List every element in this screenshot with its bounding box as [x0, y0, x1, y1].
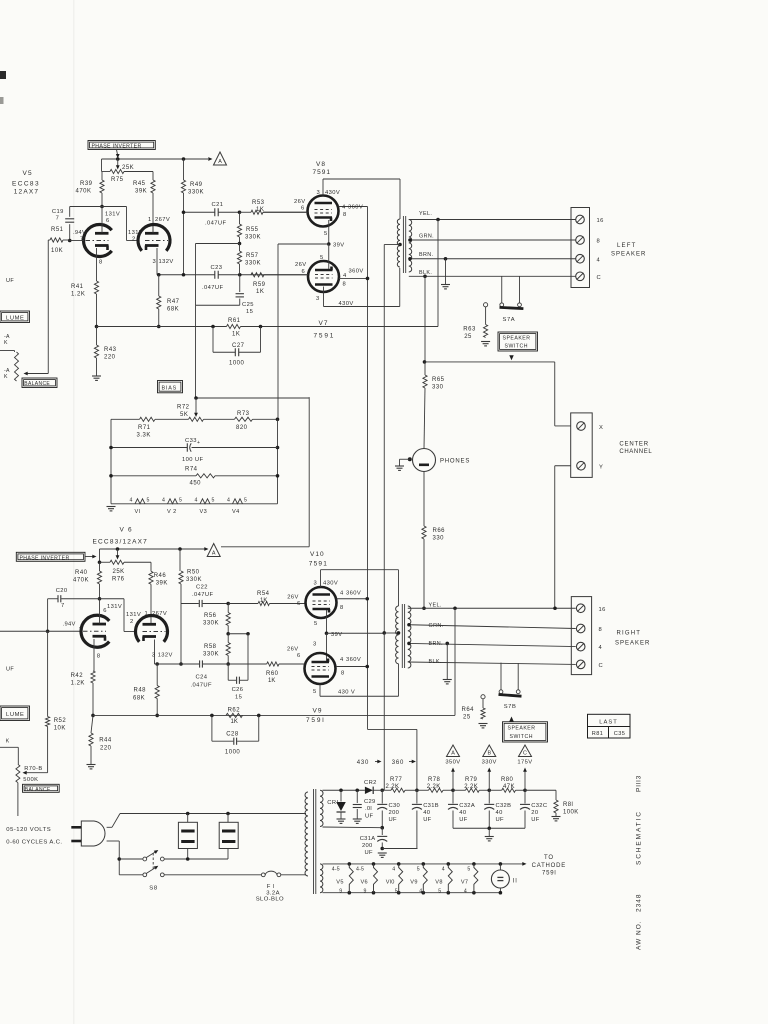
svg-text:25K: 25K — [122, 165, 134, 171]
svg-text:BALANCE: BALANCE — [24, 381, 50, 387]
svg-text:ECC83/12AX7: ECC83/12AX7 — [93, 539, 148, 546]
svg-text:R49: R49 — [190, 182, 203, 188]
svg-text:26V: 26V — [287, 595, 299, 601]
svg-text:4: 4 — [419, 888, 422, 894]
svg-text:330K: 330K — [203, 621, 219, 627]
svg-text:B: B — [487, 750, 491, 756]
svg-text:7: 7 — [56, 216, 59, 222]
svg-text:V9: V9 — [410, 879, 417, 885]
svg-text:C22: C22 — [196, 585, 208, 591]
svg-text:1K: 1K — [232, 332, 240, 338]
svg-text:4: 4 — [392, 866, 395, 872]
svg-text:5: 5 — [313, 689, 316, 695]
svg-text:R79: R79 — [465, 777, 477, 783]
svg-text:LUME: LUME — [6, 316, 25, 322]
svg-text:4: 4 — [442, 866, 445, 872]
svg-text:26V: 26V — [295, 262, 307, 268]
svg-text:UF: UF — [531, 817, 539, 823]
svg-text:8: 8 — [343, 282, 346, 288]
svg-text:25K: 25K — [113, 569, 125, 575]
svg-text:8: 8 — [599, 627, 603, 633]
svg-text:2: 2 — [132, 237, 135, 243]
svg-text:R65: R65 — [432, 377, 445, 383]
svg-text:267V: 267V — [155, 217, 170, 223]
svg-text:LEFT: LEFT — [617, 243, 636, 249]
svg-text:175V: 175V — [517, 760, 532, 766]
svg-text:5K: 5K — [180, 412, 188, 418]
svg-text:2: 2 — [130, 619, 133, 625]
svg-text:267V: 267V — [152, 611, 167, 617]
svg-text:68K: 68K — [133, 696, 145, 702]
svg-text:6: 6 — [297, 653, 300, 659]
svg-text:R77: R77 — [390, 777, 402, 783]
svg-text:132V: 132V — [158, 653, 173, 659]
svg-text:.047UF: .047UF — [191, 682, 212, 688]
svg-text:3: 3 — [317, 190, 320, 196]
svg-text:S7A: S7A — [503, 317, 516, 323]
svg-text:R52: R52 — [54, 718, 67, 724]
svg-text:V5: V5 — [336, 879, 343, 885]
svg-text:R64: R64 — [462, 707, 475, 713]
svg-text:C26: C26 — [232, 687, 244, 693]
svg-text:R59: R59 — [253, 282, 266, 288]
svg-text:1: 1 — [148, 217, 151, 223]
svg-text:759l: 759l — [306, 717, 326, 724]
svg-text:.94V: .94V — [73, 230, 86, 236]
svg-text:+: + — [197, 440, 200, 446]
svg-text:470K: 470K — [76, 189, 92, 195]
svg-text:R39: R39 — [80, 181, 93, 187]
svg-text:R73: R73 — [237, 411, 250, 417]
svg-text:05-120 VOLTS: 05-120 VOLTS — [6, 827, 51, 833]
svg-text:Il: Il — [513, 879, 518, 885]
svg-text:BLK.: BLK. — [419, 270, 432, 276]
svg-text:1000: 1000 — [225, 749, 241, 755]
svg-text:SWITCH: SWITCH — [510, 734, 533, 740]
svg-text:CENTER: CENTER — [619, 442, 648, 448]
svg-text:5: 5 — [417, 866, 420, 872]
svg-text:39K: 39K — [135, 189, 147, 195]
svg-text:R66: R66 — [433, 528, 446, 534]
svg-text:C32C: C32C — [531, 803, 547, 809]
svg-text:40: 40 — [459, 810, 466, 816]
svg-text:AW NO.: AW NO. — [636, 920, 643, 950]
svg-text:430V: 430V — [339, 301, 354, 307]
svg-text:C35: C35 — [614, 731, 625, 737]
svg-text:4: 4 — [599, 645, 603, 651]
svg-text:1K: 1K — [256, 289, 264, 295]
svg-text:LAST: LAST — [599, 720, 618, 726]
svg-text:450: 450 — [190, 481, 202, 487]
svg-text:RIGHT: RIGHT — [617, 631, 642, 637]
svg-text:330K: 330K — [186, 577, 202, 583]
svg-text:39V: 39V — [333, 243, 345, 249]
svg-text:68K: 68K — [167, 307, 179, 313]
svg-text:200: 200 — [389, 810, 400, 816]
svg-text:K: K — [4, 374, 8, 380]
svg-text:5: 5 — [320, 255, 323, 261]
svg-text:131V: 131V — [105, 212, 120, 218]
svg-text:6: 6 — [106, 218, 109, 224]
svg-text:3: 3 — [152, 653, 155, 659]
svg-text:R56: R56 — [204, 613, 217, 619]
svg-text:C25: C25 — [242, 302, 254, 308]
svg-text:SPEAKER: SPEAKER — [503, 336, 531, 342]
svg-text:3: 3 — [316, 296, 319, 302]
svg-text:C: C — [523, 750, 527, 756]
svg-text:BLK.: BLK. — [429, 659, 442, 665]
svg-text:330K: 330K — [188, 190, 204, 196]
svg-text:430V: 430V — [325, 190, 340, 196]
svg-text:330K: 330K — [245, 261, 261, 267]
svg-text:7591: 7591 — [309, 561, 328, 568]
svg-text:16: 16 — [597, 218, 604, 224]
svg-text:C30: C30 — [389, 803, 401, 809]
svg-text:15: 15 — [235, 695, 242, 701]
svg-text:5: 5 — [212, 498, 215, 504]
svg-text:8: 8 — [343, 212, 346, 218]
svg-text:UF: UF — [365, 850, 373, 856]
svg-text:4-5: 4-5 — [356, 866, 364, 872]
svg-text:500K: 500K — [23, 777, 38, 783]
svg-text:3: 3 — [153, 259, 156, 265]
svg-text:CR2: CR2 — [364, 780, 377, 786]
svg-text:200: 200 — [362, 843, 373, 849]
svg-text:1: 1 — [145, 611, 148, 617]
svg-text:1.2K: 1.2K — [71, 681, 85, 687]
svg-text:R51: R51 — [51, 227, 64, 233]
svg-text:6: 6 — [302, 269, 305, 275]
svg-text:R42: R42 — [71, 673, 84, 679]
svg-text:759l: 759l — [542, 870, 557, 876]
svg-text:R54: R54 — [257, 591, 270, 597]
svg-text:V3: V3 — [200, 509, 208, 515]
svg-text:5: 5 — [467, 866, 470, 872]
svg-text:C24: C24 — [196, 675, 208, 681]
svg-text:UF: UF — [496, 817, 504, 823]
svg-text:R61: R61 — [228, 318, 241, 324]
svg-text:R8l: R8l — [563, 802, 573, 808]
svg-text:X: X — [599, 425, 603, 431]
svg-text:3: 3 — [314, 581, 317, 587]
svg-text:TO: TO — [544, 855, 554, 861]
svg-text:R75: R75 — [111, 177, 124, 183]
svg-text:YEL.: YEL. — [429, 603, 442, 609]
svg-text:UF: UF — [6, 666, 14, 672]
svg-text:PHONES: PHONES — [440, 459, 470, 465]
svg-text:BRN.: BRN. — [419, 252, 433, 258]
svg-text:R81: R81 — [592, 731, 603, 737]
svg-text:430V: 430V — [323, 581, 338, 587]
svg-text:10K: 10K — [54, 726, 66, 732]
svg-text:4: 4 — [195, 498, 198, 504]
svg-text:7591: 7591 — [314, 333, 336, 340]
svg-text:C31A: C31A — [360, 836, 376, 842]
svg-text:.047UF: .047UF — [205, 221, 226, 227]
svg-text:2.2K: 2.2K — [427, 784, 441, 790]
svg-text:360V: 360V — [346, 591, 361, 597]
svg-text:V5: V5 — [23, 170, 33, 177]
svg-text:R80: R80 — [501, 777, 513, 783]
svg-text:UF: UF — [423, 817, 431, 823]
svg-text:330V: 330V — [482, 760, 497, 766]
svg-text:R60: R60 — [266, 671, 279, 677]
svg-text:R72: R72 — [177, 405, 190, 411]
svg-text:CHANNEL: CHANNEL — [619, 449, 652, 455]
svg-text:7: 7 — [79, 627, 82, 633]
svg-text:PHASE INVERTER: PHASE INVERTER — [92, 143, 142, 149]
svg-text:R57: R57 — [246, 253, 259, 259]
svg-text:2348: 2348 — [636, 894, 643, 912]
svg-text:2.2K: 2.2K — [464, 784, 478, 790]
svg-text:1K: 1K — [231, 719, 238, 725]
svg-text:R48: R48 — [134, 688, 147, 694]
svg-text:470K: 470K — [73, 578, 89, 584]
svg-text:360V: 360V — [348, 205, 363, 211]
svg-text:R40: R40 — [75, 570, 88, 576]
svg-text:R55: R55 — [246, 227, 259, 233]
svg-text:S8: S8 — [149, 885, 158, 891]
svg-text:C20: C20 — [56, 588, 68, 594]
svg-text:YEL.: YEL. — [419, 211, 432, 217]
svg-text:A: A — [218, 159, 222, 165]
svg-text:C28: C28 — [226, 732, 239, 738]
svg-text:4-5: 4-5 — [332, 866, 340, 872]
svg-text:A: A — [212, 550, 216, 556]
svg-text:R44: R44 — [99, 738, 112, 744]
svg-text:5: 5 — [314, 621, 317, 627]
svg-text:CRI: CRI — [327, 800, 338, 806]
svg-text:4: 4 — [597, 257, 601, 263]
svg-text:3.3K: 3.3K — [137, 433, 151, 439]
svg-text:R53: R53 — [252, 200, 265, 206]
svg-text:UF: UF — [6, 278, 14, 284]
svg-text:R43: R43 — [104, 347, 117, 353]
svg-text:330: 330 — [432, 385, 444, 391]
svg-text:47K: 47K — [503, 784, 515, 790]
svg-text:40: 40 — [496, 810, 503, 816]
svg-text:UF: UF — [365, 814, 373, 820]
svg-text:6: 6 — [301, 206, 304, 212]
svg-text:4: 4 — [464, 888, 467, 894]
svg-text:Plll3: Plll3 — [636, 775, 643, 792]
svg-text:V6: V6 — [361, 879, 368, 885]
svg-text:5: 5 — [324, 231, 327, 237]
svg-text:5: 5 — [179, 498, 182, 504]
svg-text:ECC83: ECC83 — [12, 181, 40, 188]
svg-text:8: 8 — [341, 671, 344, 677]
svg-text:100K: 100K — [563, 810, 579, 816]
svg-text:R50: R50 — [187, 570, 200, 576]
svg-text:.047UF: .047UF — [202, 285, 223, 291]
svg-text:BIAS: BIAS — [162, 385, 177, 391]
svg-text:330K: 330K — [203, 652, 219, 658]
svg-text:.047UF: .047UF — [192, 592, 213, 598]
svg-text:9: 9 — [364, 888, 367, 894]
svg-text:K: K — [4, 340, 8, 346]
svg-text:1K: 1K — [260, 598, 267, 604]
svg-text:SCHEMATIC: SCHEMATIC — [636, 810, 643, 865]
svg-text:12AX7: 12AX7 — [14, 189, 40, 196]
svg-text:R76: R76 — [112, 577, 125, 583]
svg-text:7: 7 — [80, 237, 83, 243]
svg-text:7: 7 — [61, 603, 64, 609]
svg-text:131V: 131V — [126, 612, 141, 618]
svg-text:1000: 1000 — [229, 361, 245, 367]
svg-text:V 2: V 2 — [167, 509, 177, 515]
svg-text:C21: C21 — [212, 202, 224, 208]
svg-text:8: 8 — [597, 239, 601, 245]
svg-text:9: 9 — [339, 888, 342, 894]
svg-text:V 6: V 6 — [120, 527, 133, 534]
svg-text:5: 5 — [244, 498, 247, 504]
svg-text:Vl0: Vl0 — [386, 879, 395, 885]
svg-text:R41: R41 — [71, 284, 84, 290]
svg-text:26V: 26V — [287, 647, 299, 653]
svg-text:R62: R62 — [228, 707, 241, 713]
svg-text:131V: 131V — [128, 230, 143, 236]
svg-text:V7: V7 — [461, 879, 468, 885]
svg-text:V4: V4 — [232, 509, 240, 515]
svg-text:CATHODE: CATHODE — [532, 863, 567, 869]
svg-text:8: 8 — [99, 260, 102, 266]
svg-text:C27: C27 — [232, 343, 245, 349]
svg-text:S7B: S7B — [504, 704, 517, 710]
svg-text:4: 4 — [130, 498, 133, 504]
svg-text:16: 16 — [599, 607, 606, 613]
svg-text:Vl: Vl — [135, 509, 141, 515]
svg-text:15: 15 — [246, 309, 253, 315]
svg-text:220: 220 — [100, 745, 112, 751]
svg-text:GRN.: GRN. — [419, 234, 434, 240]
svg-text:R78: R78 — [428, 777, 440, 783]
svg-text:4: 4 — [162, 498, 165, 504]
svg-text:3.2A: 3.2A — [266, 890, 280, 896]
svg-text:26V: 26V — [294, 199, 306, 205]
svg-text:.94V: .94V — [63, 622, 76, 628]
svg-text:UF: UF — [389, 817, 397, 823]
svg-text:V8: V8 — [316, 161, 326, 168]
svg-text:R47: R47 — [167, 299, 180, 305]
svg-text:360V: 360V — [346, 657, 361, 663]
svg-text:GRN.: GRN. — [429, 623, 444, 629]
svg-text:V9: V9 — [313, 708, 323, 715]
svg-text:SPEAKER: SPEAKER — [615, 641, 650, 647]
svg-text:1K: 1K — [268, 678, 275, 684]
svg-text:V8: V8 — [435, 879, 442, 885]
svg-text:BALANCE: BALANCE — [25, 787, 51, 793]
svg-text:K: K — [6, 739, 10, 745]
svg-text:25: 25 — [464, 334, 472, 340]
svg-text:100 UF: 100 UF — [182, 457, 203, 463]
svg-text:C31B: C31B — [423, 803, 439, 809]
svg-text:8: 8 — [340, 605, 343, 611]
svg-text:F l: F l — [267, 884, 275, 890]
svg-text:0-60 CYCLES A.C.: 0-60 CYCLES A.C. — [6, 840, 62, 846]
svg-text:360: 360 — [392, 760, 404, 766]
svg-text:UF: UF — [459, 817, 467, 823]
svg-text:430 V: 430 V — [338, 690, 355, 696]
svg-text:C19: C19 — [52, 209, 64, 215]
svg-text:R74: R74 — [185, 467, 198, 473]
svg-text:C: C — [599, 663, 604, 669]
svg-text:5: 5 — [395, 888, 398, 894]
svg-text:1.2K: 1.2K — [71, 292, 85, 298]
svg-text:SPEAKER: SPEAKER — [611, 252, 646, 258]
svg-text:350V: 350V — [445, 760, 460, 766]
svg-text:LUME: LUME — [6, 712, 25, 718]
svg-text:Y: Y — [599, 465, 603, 471]
svg-text:5: 5 — [438, 888, 441, 894]
svg-text:8: 8 — [97, 654, 100, 660]
svg-text:C23: C23 — [211, 265, 223, 271]
svg-text:R58: R58 — [204, 644, 217, 650]
svg-text:7591: 7591 — [313, 169, 331, 176]
svg-text:6: 6 — [297, 601, 300, 607]
svg-text:BRN.: BRN. — [429, 641, 443, 647]
svg-text:430: 430 — [357, 760, 369, 766]
svg-text:SLO-BLO: SLO-BLO — [256, 896, 284, 902]
svg-text:SPEAKER: SPEAKER — [508, 726, 536, 732]
svg-text:.0l: .0l — [365, 806, 372, 812]
svg-text:PHASE INVERTER: PHASE INVERTER — [20, 555, 70, 561]
svg-text:C: C — [597, 275, 602, 281]
svg-text:R71: R71 — [138, 425, 151, 431]
svg-text:C29: C29 — [364, 799, 376, 805]
svg-text:R45: R45 — [133, 181, 146, 187]
svg-text:25: 25 — [463, 715, 471, 721]
svg-text:360V: 360V — [349, 269, 364, 275]
svg-text:10K: 10K — [51, 248, 63, 254]
svg-text:R70-B: R70-B — [24, 766, 42, 772]
svg-text:131V: 131V — [107, 604, 122, 610]
svg-text:V7: V7 — [319, 320, 329, 327]
svg-text:220: 220 — [104, 355, 116, 361]
svg-text:5: 5 — [147, 498, 150, 504]
svg-text:4: 4 — [227, 498, 230, 504]
svg-text:C32B: C32B — [496, 803, 512, 809]
svg-text:330K: 330K — [245, 235, 261, 241]
svg-text:132V: 132V — [159, 259, 174, 265]
svg-text:40: 40 — [423, 810, 430, 816]
svg-text:C33: C33 — [185, 438, 197, 444]
svg-text:330: 330 — [433, 536, 445, 542]
svg-text:R63: R63 — [463, 327, 476, 333]
svg-text:R46: R46 — [154, 573, 167, 579]
svg-text:820: 820 — [236, 425, 248, 431]
svg-text:20: 20 — [531, 810, 538, 816]
svg-text:SWITCH: SWITCH — [505, 344, 528, 350]
svg-text:A: A — [451, 750, 455, 756]
svg-text:2.2K: 2.2K — [386, 784, 400, 790]
svg-text:C32A: C32A — [459, 803, 475, 809]
svg-text:V10: V10 — [310, 551, 325, 558]
svg-text:3: 3 — [313, 642, 316, 648]
svg-text:39K: 39K — [156, 581, 168, 587]
